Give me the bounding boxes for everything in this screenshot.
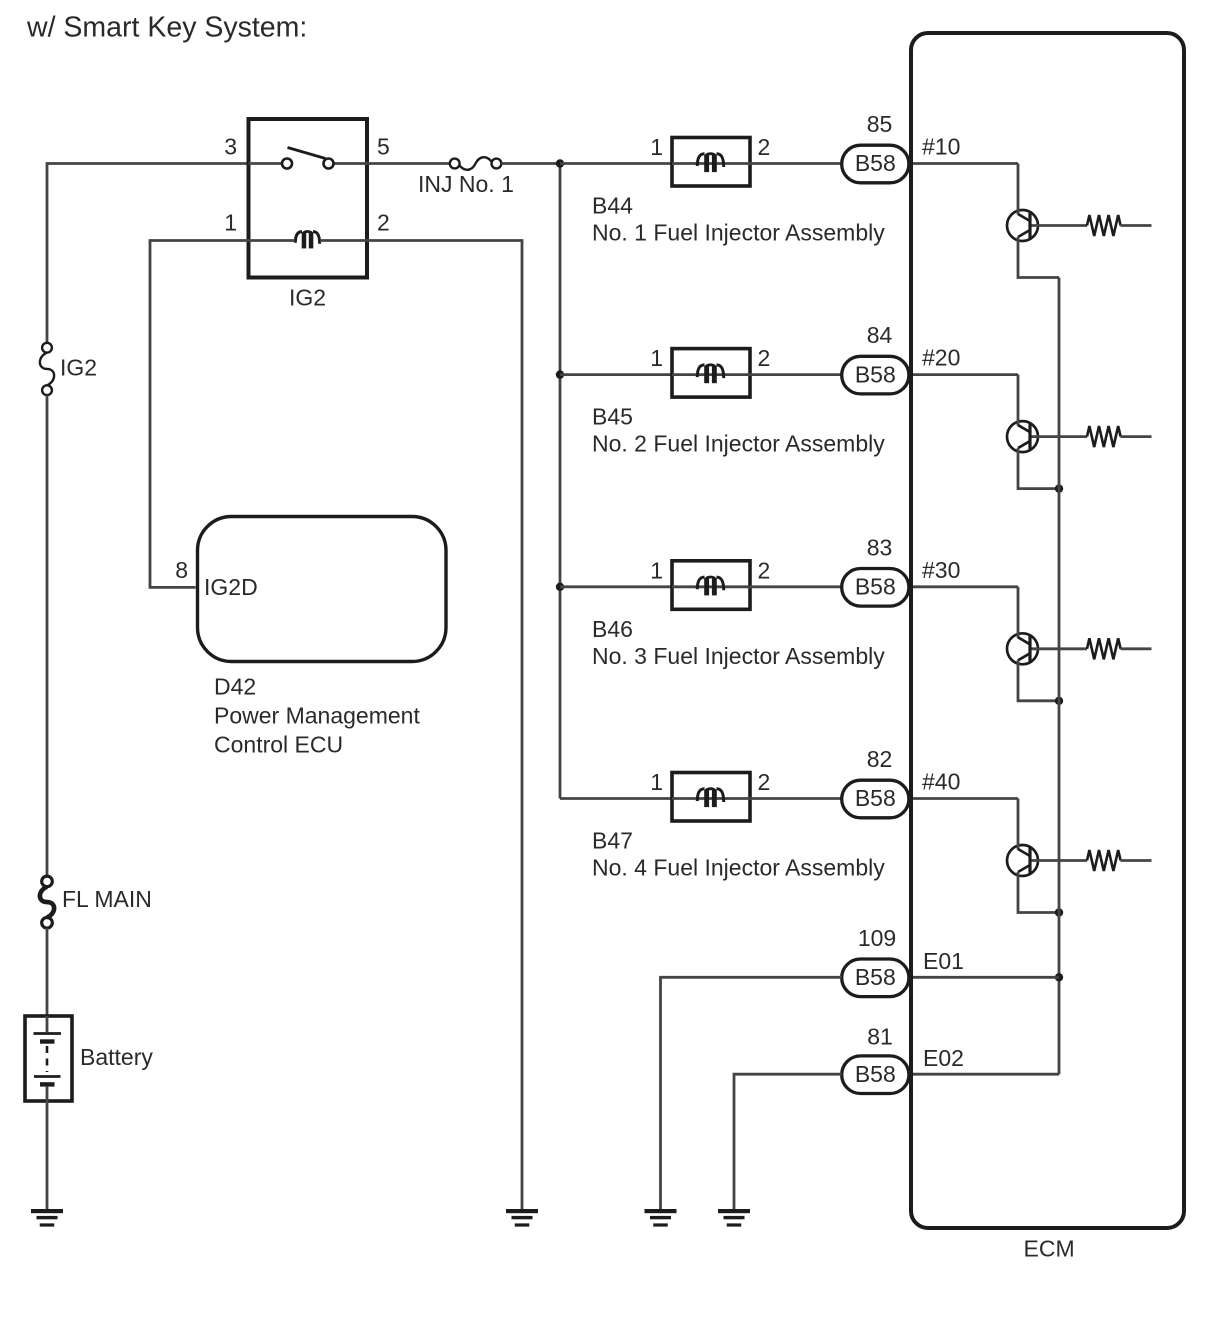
- injector coil B46: [697, 577, 723, 595]
- wire - resistor to right (#40): [1121, 859, 1152, 862]
- label #40: [922, 769, 960, 795]
- wire - left rail IG2 fuse to FL MAIN: [46, 395, 49, 876]
- label pin 1 (B44): [650, 134, 663, 160]
- wire - base lead (#40): [1032, 859, 1088, 862]
- wire - injector feed rail: [559, 164, 562, 799]
- label INJ No. 1: [418, 171, 514, 197]
- wire - emitter to bus (#10): [1018, 237, 1059, 278]
- wire - E01 into ECM: [911, 976, 1060, 979]
- battery: [25, 1016, 72, 1101]
- label 109: [858, 925, 896, 951]
- wire - resistor to right (#10): [1121, 224, 1152, 227]
- resistor (base #10): [1087, 215, 1121, 236]
- wire - INJ fuse to junction: [501, 162, 560, 165]
- svg-text:1: 1: [650, 769, 663, 795]
- svg-text:2: 2: [758, 134, 771, 160]
- svg-text:B44: B44: [592, 193, 633, 219]
- connector B58 (109/E01): [842, 959, 909, 997]
- label B45: [592, 404, 633, 430]
- wire - feed to injector B47: [560, 797, 671, 800]
- svg-text:IG2: IG2: [60, 355, 97, 381]
- label pin 1 (B46): [650, 557, 663, 583]
- label D42: [214, 674, 256, 700]
- wire - base lead (#30): [1032, 647, 1088, 650]
- svg-text:No. 4 Fuel Injector Assembly: No. 4 Fuel Injector Assembly: [592, 855, 885, 881]
- wire - relay pin 2 to ground: [320, 241, 522, 1210]
- wire - #30 into ECM: [911, 585, 1019, 588]
- wire - E02 into ECM: [911, 1073, 1060, 1076]
- svg-text:B47: B47: [592, 828, 633, 854]
- fuse INJ No. 1: [450, 157, 501, 170]
- relay IG2 box: [249, 119, 368, 278]
- connector B58 (83): [842, 569, 909, 607]
- svg-text:1: 1: [650, 557, 663, 583]
- svg-text:109: 109: [858, 925, 896, 951]
- svg-text:2: 2: [377, 210, 390, 236]
- wire - #10 into ECM: [911, 162, 1019, 165]
- label #10: [922, 134, 960, 160]
- label pin 3: [224, 134, 237, 160]
- svg-text:B58: B58: [855, 361, 896, 387]
- svg-text:FL MAIN: FL MAIN: [62, 886, 152, 912]
- connector B58 (81/E02): [842, 1056, 909, 1094]
- svg-text:82: 82: [867, 746, 893, 772]
- svg-text:84: 84: [867, 322, 893, 348]
- wire - ECM internal ground bus: [1058, 278, 1061, 1075]
- label B47: [592, 828, 633, 854]
- resistor (base #20): [1087, 426, 1121, 447]
- label pin 1 (B47): [650, 769, 663, 795]
- svg-text:#30: #30: [922, 557, 960, 583]
- label pin 2 (B47): [758, 769, 771, 795]
- transistor (#40 driver): [1007, 799, 1038, 877]
- junction node emitter bus (#40): [1055, 908, 1063, 916]
- label 83: [867, 534, 893, 560]
- junction node row 2: [556, 370, 564, 378]
- junction node row 1: [556, 159, 564, 167]
- junction node row 3: [556, 583, 564, 591]
- resistor (base #30): [1087, 638, 1121, 659]
- transistor (#10 driver): [1007, 164, 1038, 242]
- wire - base lead (#20): [1032, 435, 1088, 438]
- wire - feed to injector B45: [560, 373, 671, 376]
- fusible link FL MAIN: [40, 876, 54, 928]
- wire - relay pin 5 to INJ fuse: [367, 162, 450, 165]
- wire - #20 into ECM: [911, 373, 1019, 376]
- label IG2D: [204, 574, 258, 600]
- svg-text:IG2: IG2: [289, 285, 326, 311]
- svg-text:Control ECU: Control ECU: [214, 732, 343, 758]
- label pin 2 (B45): [758, 345, 771, 371]
- svg-text:#10: #10: [922, 134, 960, 160]
- svg-text:B45: B45: [592, 404, 633, 430]
- label Battery: [80, 1044, 153, 1070]
- label No. 2 Fuel Injector Assembly: [592, 431, 885, 457]
- svg-text:w/ Smart Key System:: w/ Smart Key System:: [26, 12, 307, 44]
- label FL MAIN: [62, 886, 152, 912]
- label No. 4 Fuel Injector Assembly: [592, 855, 885, 881]
- svg-text:2: 2: [758, 345, 771, 371]
- ECU D42 box: [198, 517, 447, 662]
- label E02: [923, 1045, 964, 1071]
- label 84: [867, 322, 893, 348]
- label Control ECU: [214, 732, 343, 758]
- transistor (#20 driver): [1007, 375, 1038, 453]
- wire - emitter to bus (#40): [1018, 872, 1059, 913]
- label pin 2 (B44): [758, 134, 771, 160]
- wire - through injector B45: [672, 373, 841, 376]
- svg-text:Battery: Battery: [80, 1044, 153, 1070]
- label IG2 (fuse): [60, 355, 97, 381]
- label B46: [592, 616, 633, 642]
- svg-text:B58: B58: [855, 964, 896, 990]
- svg-text:1: 1: [650, 134, 663, 160]
- svg-text:ECM: ECM: [1024, 1236, 1075, 1262]
- svg-text:2: 2: [758, 557, 771, 583]
- injector B45 box: [672, 349, 750, 398]
- svg-text:No. 2 Fuel Injector Assembly: No. 2 Fuel Injector Assembly: [592, 431, 885, 457]
- svg-text:B58: B58: [855, 574, 896, 600]
- label #20: [922, 345, 960, 371]
- svg-text:INJ No. 1: INJ No. 1: [418, 171, 514, 197]
- ground (E02): [718, 1209, 750, 1227]
- svg-text:B58: B58: [855, 785, 896, 811]
- svg-text:8: 8: [175, 557, 188, 583]
- relay coil: [295, 231, 319, 248]
- svg-text:1: 1: [224, 210, 237, 236]
- junction node emitter bus (#30): [1055, 697, 1063, 705]
- svg-text:Power Management: Power Management: [214, 703, 420, 729]
- label 82: [867, 746, 893, 772]
- injector B47 box: [672, 773, 750, 822]
- svg-text:B46: B46: [592, 616, 633, 642]
- relay switch contacts: [249, 148, 367, 169]
- connector B58 (84): [842, 356, 909, 394]
- label B44: [592, 193, 633, 219]
- injector B44 box: [672, 138, 750, 187]
- wire - emitter to bus (#20): [1018, 448, 1059, 489]
- label pin 5: [377, 134, 390, 160]
- ECM box: [911, 33, 1184, 1228]
- connector B58 (82): [842, 780, 909, 818]
- svg-text:B58: B58: [855, 1061, 896, 1087]
- injector coil B45: [697, 365, 723, 383]
- label E01: [923, 948, 964, 974]
- injector B46 box: [672, 561, 750, 610]
- label #30: [922, 557, 960, 583]
- svg-text:B58: B58: [855, 150, 896, 176]
- title text: [26, 12, 307, 44]
- injector coil B44: [697, 154, 723, 172]
- wire - resistor to right (#30): [1121, 647, 1152, 650]
- svg-text:IG2D: IG2D: [204, 574, 258, 600]
- wire - #40 into ECM: [911, 797, 1019, 800]
- label 81: [867, 1024, 893, 1050]
- svg-text:E02: E02: [923, 1045, 964, 1071]
- svg-text:83: 83: [867, 534, 893, 560]
- label pin 1 (B45): [650, 345, 663, 371]
- svg-text:2: 2: [758, 769, 771, 795]
- wire - through injector B47: [672, 797, 841, 800]
- junction node E01: [1055, 973, 1063, 981]
- connector B58 (85): [842, 145, 909, 183]
- label IG2 (relay): [289, 285, 326, 311]
- svg-text:81: 81: [867, 1024, 893, 1050]
- wire - battery to ground: [46, 1101, 49, 1209]
- wire - through injector B44: [672, 162, 841, 165]
- label 85: [867, 111, 893, 137]
- transistor (#30 driver): [1007, 587, 1038, 665]
- svg-text:No. 1 Fuel Injector Assembly: No. 1 Fuel Injector Assembly: [592, 220, 885, 246]
- label Power Management: [214, 703, 420, 729]
- wire - base lead (#10): [1032, 224, 1088, 227]
- injector coil B47: [697, 789, 723, 807]
- label No. 3 Fuel Injector Assembly: [592, 643, 885, 669]
- ground (battery): [31, 1209, 63, 1227]
- svg-text:No. 3 Fuel Injector Assembly: No. 3 Fuel Injector Assembly: [592, 643, 885, 669]
- svg-text:85: 85: [867, 111, 893, 137]
- svg-text:#40: #40: [922, 769, 960, 795]
- label ECM: [1024, 1236, 1075, 1262]
- wire - E01 to ground: [661, 977, 842, 1209]
- wire - E02 to ground: [734, 1074, 842, 1209]
- wire - battery feed from left rail to relay pin 3: [47, 164, 247, 343]
- fuse IG2: [40, 343, 54, 395]
- resistor (base #40): [1087, 850, 1121, 871]
- junction node emitter bus (#20): [1055, 484, 1063, 492]
- ground (relay coil): [506, 1209, 538, 1227]
- label No. 1 Fuel Injector Assembly: [592, 220, 885, 246]
- wire - feed to injector B46: [560, 585, 671, 588]
- ground (E01): [645, 1209, 677, 1227]
- wire - relay pin 1 to D42 pin 8: [150, 241, 295, 588]
- wire - through injector B46: [672, 585, 841, 588]
- svg-text:D42: D42: [214, 674, 256, 700]
- wire - emitter to bus (#30): [1018, 660, 1059, 701]
- svg-text:1: 1: [650, 345, 663, 371]
- label pin 2 (B46): [758, 557, 771, 583]
- wire - FL MAIN to battery: [46, 928, 49, 1016]
- svg-text:#20: #20: [922, 345, 960, 371]
- label pin 1: [224, 210, 237, 236]
- label pin 2: [377, 210, 390, 236]
- wire - feed to injector B44: [560, 162, 671, 165]
- svg-text:E01: E01: [923, 948, 964, 974]
- svg-text:3: 3: [224, 134, 237, 160]
- label pin 8: [175, 557, 188, 583]
- wire - resistor to right (#20): [1121, 435, 1152, 438]
- svg-text:5: 5: [377, 134, 390, 160]
